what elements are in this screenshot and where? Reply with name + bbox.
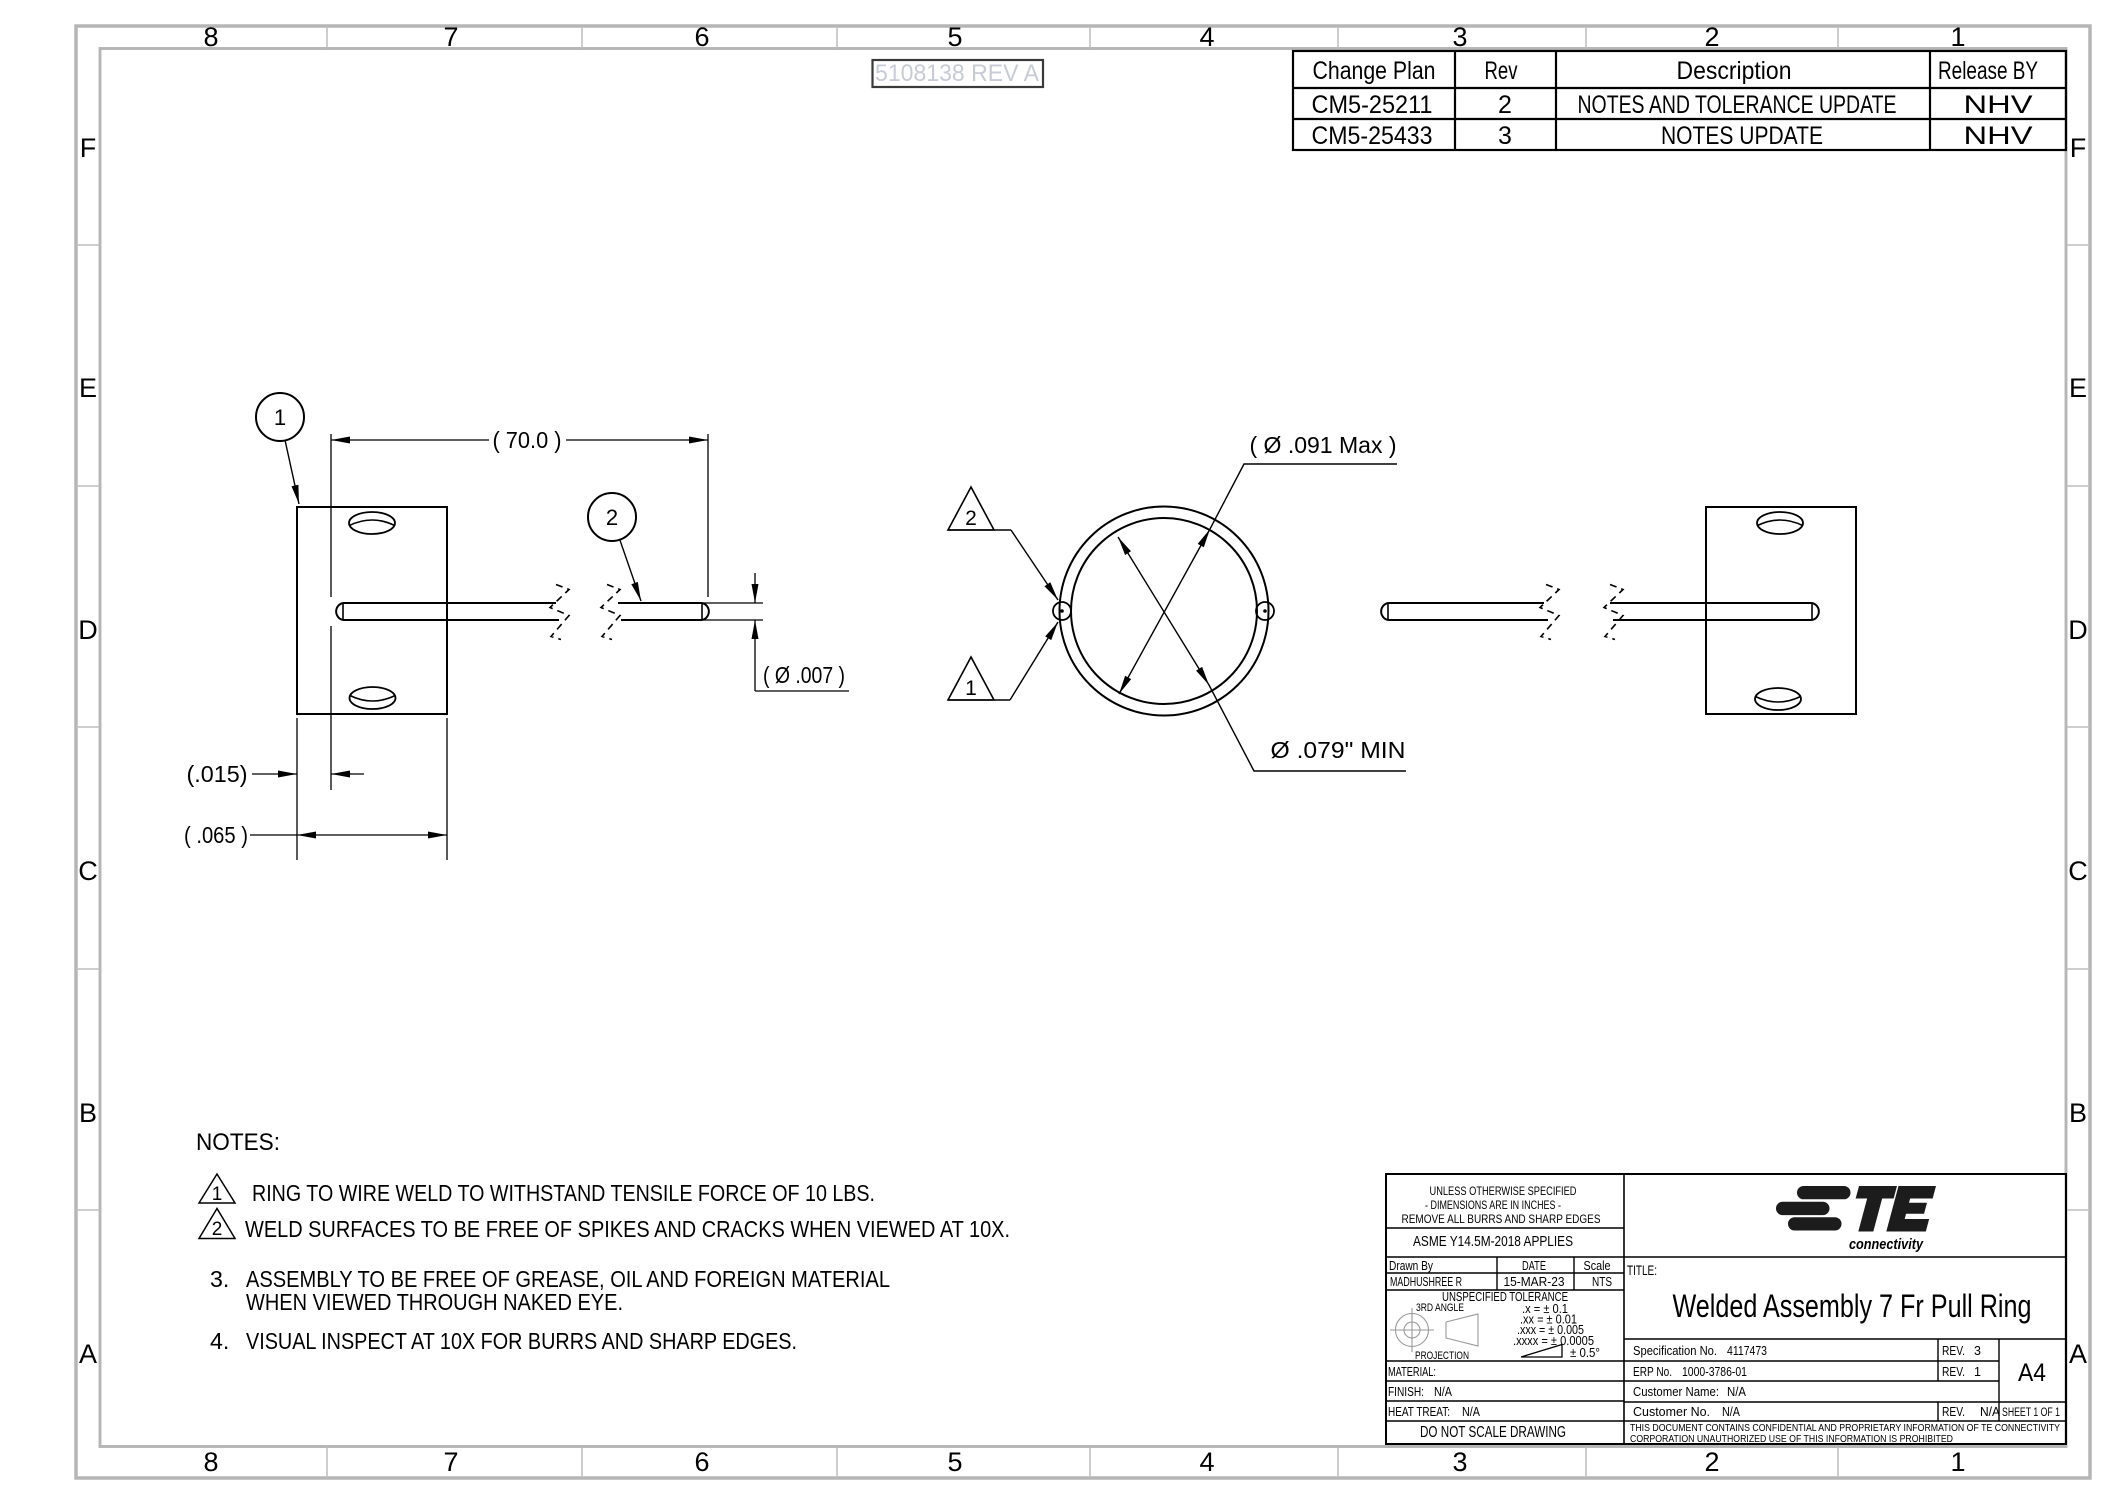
svg-text:ASME Y14.5M-2018 APPLIES: ASME Y14.5M-2018 APPLIES (1413, 1234, 1573, 1250)
svg-text:1: 1 (1974, 1365, 1981, 1379)
svg-text:NOTES UPDATE: NOTES UPDATE (1661, 122, 1823, 150)
svg-text:F: F (2070, 133, 2087, 163)
svg-text:WELD SURFACES TO BE FREE OF SP: WELD SURFACES TO BE FREE OF SPIKES AND C… (245, 1216, 1010, 1242)
svg-text:D: D (2068, 615, 2088, 645)
svg-text:MADHUSHREE R: MADHUSHREE R (1390, 1275, 1462, 1289)
svg-text:Change Plan: Change Plan (1313, 57, 1436, 85)
svg-text:DO NOT SCALE DRAWING: DO NOT SCALE DRAWING (1420, 1424, 1566, 1441)
svg-text:NOTES:: NOTES: (196, 1129, 280, 1156)
svg-text:B: B (79, 1098, 97, 1128)
dimension diameter .007 (702, 573, 849, 691)
svg-text:15-MAR-23: 15-MAR-23 (1504, 1275, 1565, 1289)
zone column numbers top (203, 22, 1965, 52)
svg-text:5108138 REV A: 5108138 REV A (875, 60, 1040, 87)
svg-text:E: E (79, 373, 97, 403)
svg-text:( 70.0 ): ( 70.0 ) (493, 427, 562, 453)
middle wire segment 1 with cap (1381, 603, 1548, 620)
svg-text:CM5-25211: CM5-25211 (1312, 91, 1433, 119)
svg-text:THIS DOCUMENT CONTAINS CONFIDE: THIS DOCUMENT CONTAINS CONFIDENTIAL AND … (1630, 1423, 2060, 1434)
third angle projection symbol (1390, 1308, 1478, 1352)
svg-text:1: 1 (965, 677, 977, 700)
svg-text:3: 3 (1452, 22, 1467, 52)
svg-text:A: A (2069, 1339, 2087, 1369)
svg-text:3: 3 (1974, 1344, 1981, 1358)
svg-text:N/A: N/A (1722, 1405, 1741, 1419)
dimension diameter .091 Max leader (1119, 432, 1397, 694)
note 3 text (210, 1266, 890, 1315)
note 4 text (210, 1328, 797, 1354)
zone divider ticks side strips (76, 245, 2090, 1210)
svg-text:Specification No.: Specification No. (1633, 1344, 1717, 1358)
title text (1627, 1263, 2032, 1324)
zone row letters right (2068, 133, 2088, 1369)
svg-text:N/A: N/A (1727, 1385, 1747, 1399)
dimension diameter .079 MIN leader (1118, 537, 1406, 771)
svg-text:8: 8 (203, 1447, 218, 1477)
svg-text:UNLESS OTHERWISE SPECIFIED: UNLESS OTHERWISE SPECIFIED (1430, 1184, 1577, 1198)
svg-text:Description: Description (1677, 57, 1792, 85)
drawn-by row (1389, 1259, 1612, 1289)
svg-text:B: B (2069, 1098, 2087, 1128)
svg-text:7: 7 (443, 1447, 458, 1477)
middle wire break mark 2 (1604, 585, 1623, 640)
svg-text:1: 1 (1950, 1447, 1965, 1477)
svg-text:C: C (2068, 856, 2088, 886)
svg-text:D: D (78, 615, 98, 645)
svg-text:PROJECTION: PROJECTION (1415, 1350, 1469, 1362)
svg-text:HEAT TREAT:: HEAT TREAT: (1388, 1405, 1450, 1419)
material finish rows (1388, 1365, 1566, 1441)
svg-text:ERP No.: ERP No. (1633, 1365, 1672, 1379)
revision table row CM5-25211 (1312, 91, 2033, 119)
zone column numbers bottom (203, 1447, 1965, 1477)
svg-text:CORPORATION UNAUTHORIZED USE O: CORPORATION UNAUTHORIZED USE OF THIS INF… (1630, 1434, 1953, 1445)
left view: lower weld nugget (350, 687, 396, 709)
svg-text:N/A: N/A (1462, 1405, 1481, 1419)
svg-text:NOTES AND TOLERANCE UPDATE: NOTES AND TOLERANCE UPDATE (1578, 91, 1897, 119)
ring view: outer circle (1060, 507, 1269, 716)
ring view: right weld wire cross-section (1256, 602, 1274, 620)
dimension (.015) (187, 761, 365, 787)
svg-text:4117473: 4117473 (1727, 1344, 1767, 1358)
svg-text:WHEN VIEWED THROUGH NAKED EYE.: WHEN VIEWED THROUGH NAKED EYE. (246, 1289, 623, 1315)
svg-text:5: 5 (947, 1447, 962, 1477)
title block grid lines (1386, 1174, 2066, 1444)
svg-text:1: 1 (1950, 22, 1965, 52)
svg-text:Rev: Rev (1485, 57, 1518, 85)
svg-text:2: 2 (965, 507, 977, 530)
svg-text:NHV: NHV (1964, 122, 2033, 150)
zone divider ticks top strip (327, 26, 1838, 1478)
left view: wire segment 1 (336, 603, 559, 620)
middle wire break mark 1 (1540, 585, 1559, 640)
angularity tolerance wedge symbol (1521, 1345, 1562, 1358)
svg-text:N/A: N/A (1434, 1385, 1453, 1399)
svg-text:NHV: NHV (1964, 91, 2033, 119)
svg-text:Customer Name:: Customer Name: (1633, 1385, 1719, 1399)
left view: extension line at wire start (330, 434, 332, 790)
left view: upper weld nugget (349, 512, 395, 534)
TE connectivity logo (1776, 1186, 1938, 1253)
svg-text:Customer No.: Customer No. (1633, 1405, 1710, 1419)
svg-text:TITLE:: TITLE: (1627, 1263, 1657, 1278)
revision table header row (1313, 57, 2039, 85)
svg-text:2: 2 (1498, 91, 1512, 119)
svg-text:5: 5 (947, 22, 962, 52)
svg-text:NTS: NTS (1592, 1275, 1612, 1289)
note flag 2 triangle with leader (948, 487, 1058, 600)
balloon 2 (588, 493, 641, 601)
svg-text:3: 3 (1452, 1447, 1467, 1477)
svg-text:Drawn By: Drawn By (1389, 1259, 1434, 1273)
dimension (.065) (184, 822, 447, 848)
svg-text:2: 2 (606, 505, 618, 530)
left view: pull-ring tab rectangle (297, 507, 447, 714)
svg-text:Scale: Scale (1584, 1259, 1611, 1273)
svg-text:SHEET 1 OF 1: SHEET 1 OF 1 (2002, 1407, 2060, 1419)
svg-text:4: 4 (1199, 22, 1214, 52)
svg-text:2: 2 (212, 1219, 223, 1240)
svg-text:Release BY: Release BY (1938, 57, 2038, 85)
svg-text:(.015): (.015) (187, 761, 248, 787)
right view: lower weld nugget (1755, 688, 1801, 710)
erp row (1633, 1365, 1981, 1379)
svg-text:( .065 ): ( .065 ) (184, 822, 248, 848)
svg-text:REV.: REV. (1942, 1365, 1965, 1379)
left view: wire segment 2 (618, 603, 709, 620)
svg-text:RING TO WIRE WELD TO WITHSTAND: RING TO WIRE WELD TO WITHSTAND TENSILE F… (252, 1180, 875, 1206)
svg-text:3: 3 (1498, 122, 1512, 150)
right view: pull-ring tab rectangle (1706, 507, 1856, 714)
svg-text:connectivity: connectivity (1849, 1236, 1924, 1253)
left view: wire break mark 2 (601, 585, 620, 640)
svg-text:E: E (2069, 373, 2087, 403)
revision table row CM5-25433 (1312, 122, 2033, 150)
svg-text:2: 2 (1704, 22, 1719, 52)
left view: extension line at wire right end (707, 434, 709, 597)
confidential note (1630, 1423, 2060, 1445)
note 1 flag triangle (199, 1174, 235, 1205)
dimension (70.0) (331, 427, 708, 453)
svg-text:REV.: REV. (1942, 1344, 1965, 1358)
svg-text:6: 6 (694, 22, 709, 52)
svg-text:VISUAL INSPECT AT 10X FOR BURR: VISUAL INSPECT AT 10X FOR BURRS AND SHAR… (246, 1328, 797, 1354)
svg-text:1: 1 (212, 1184, 223, 1205)
middle wire segment 2 with cap (1610, 603, 1819, 620)
title block tolerance notes (1402, 1184, 1601, 1250)
svg-text:( Ø .007 ): ( Ø .007 ) (763, 662, 845, 688)
ring view: inner circle (1071, 518, 1257, 704)
svg-text:Welded Assembly 7 Fr Pull Ring: Welded Assembly 7 Fr Pull Ring (1673, 1288, 2032, 1324)
title block outer frame (1386, 1174, 2066, 1444)
note flag 1 triangle with leader (948, 622, 1058, 700)
svg-text:1000-3786-01: 1000-3786-01 (1682, 1365, 1747, 1379)
svg-text:7: 7 (443, 22, 458, 52)
svg-text:N/A: N/A (1980, 1405, 2001, 1419)
note 2 flag triangle (199, 1209, 235, 1241)
svg-text:2: 2 (1704, 1447, 1719, 1477)
revision history table (1293, 51, 2066, 150)
svg-text:A4: A4 (2018, 1359, 2046, 1387)
right view: upper weld nugget (1757, 512, 1803, 534)
svg-text:3.: 3. (210, 1266, 229, 1292)
svg-text:DATE: DATE (1522, 1259, 1546, 1273)
svg-text:1: 1 (274, 405, 286, 430)
svg-text:C: C (78, 856, 98, 886)
svg-text:8: 8 (203, 22, 218, 52)
svg-text:A: A (79, 1339, 97, 1369)
svg-text:( Ø .091 Max ): ( Ø .091 Max ) (1250, 432, 1397, 458)
unspecified tolerance block (1415, 1290, 1600, 1362)
svg-text:3RD ANGLE: 3RD ANGLE (1416, 1302, 1464, 1314)
svg-text:6: 6 (694, 1447, 709, 1477)
svg-text:F: F (80, 133, 97, 163)
svg-text:Ø .079" MIN: Ø .079" MIN (1271, 737, 1406, 763)
specification row (1633, 1344, 1981, 1358)
customer rows (1633, 1385, 2060, 1419)
svg-text:FINISH:: FINISH: (1388, 1385, 1424, 1399)
svg-text:4: 4 (1199, 1447, 1214, 1477)
svg-text:- DIMENSIONS ARE IN INCHES -: - DIMENSIONS ARE IN INCHES - (1425, 1198, 1561, 1212)
svg-text:4.: 4. (210, 1328, 229, 1354)
svg-text:CM5-25433: CM5-25433 (1312, 122, 1433, 150)
left view: extension lines below tab (297, 718, 447, 860)
svg-text:± 0.5°: ± 0.5° (1570, 1346, 1600, 1360)
watermark box 5108138 REV A (873, 60, 1044, 87)
ring view: left weld wire cross-section (1053, 602, 1071, 620)
svg-text:REMOVE ALL BURRS AND SHARP EDG: REMOVE ALL BURRS AND SHARP EDGES (1402, 1212, 1601, 1226)
svg-text:REV.: REV. (1942, 1405, 1965, 1419)
balloon 1 (256, 393, 304, 504)
svg-text:MATERIAL:: MATERIAL: (1388, 1365, 1436, 1379)
left view: wire break mark 1 (550, 585, 569, 640)
zone row letters left (78, 133, 98, 1369)
